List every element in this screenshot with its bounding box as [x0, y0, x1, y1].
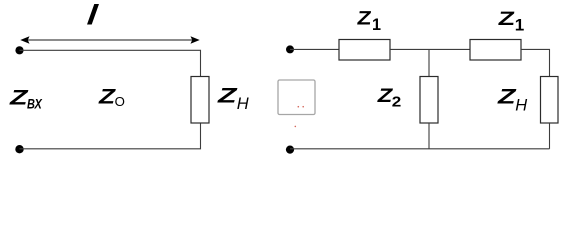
series impedance Z1 box (first): [339, 40, 390, 61]
svg-text:1: 1: [515, 17, 525, 35]
shunt impedance Z2 box: [420, 77, 438, 124]
svg-text:Z: Z: [497, 86, 517, 109]
wire: input to first Z1: [290, 48, 339, 50]
wire: between Z1 and Z1: [390, 48, 470, 50]
placeholder red dot 3: [295, 126, 297, 128]
svg-text:ВХ: ВХ: [27, 96, 43, 112]
terminal node top-left: [15, 46, 23, 54]
terminal node bottom-left: [15, 145, 23, 153]
wire: top conductor of line: [20, 50, 201, 76]
dimension arrow for length l: [20, 36, 199, 43]
label Z_1 (second): [497, 8, 516, 30]
wire: bottom conductor of line: [20, 123, 201, 149]
wire: second Z1 to ZH: [521, 49, 550, 76]
svg-text:Z: Z: [217, 85, 239, 108]
placeholder red dot 1: [298, 106, 300, 108]
wire: junction down to Z2: [428, 49, 430, 76]
wire: ZH to bottom rail: [549, 123, 551, 149]
svg-text:О: О: [115, 94, 125, 109]
svg-text:Z: Z: [497, 8, 516, 30]
load impedance ZH box (left circuit): [191, 77, 209, 124]
placeholder red dot 2: [302, 106, 304, 108]
svg-text:Z: Z: [356, 8, 373, 30]
ghost image placeholder box: [278, 80, 315, 115]
wire: bottom rail (right circuit): [290, 148, 550, 150]
wire: Z2 to bottom rail: [428, 123, 430, 149]
load impedance ZH box (right circuit): [541, 77, 559, 124]
svg-text:H: H: [237, 95, 249, 113]
label l (line length): [86, 0, 100, 30]
svg-text:H: H: [515, 97, 527, 115]
svg-text:2: 2: [392, 94, 402, 111]
terminal node top-left (right circuit): [286, 45, 294, 53]
svg-text:1: 1: [372, 15, 381, 34]
svg-text:Z: Z: [9, 86, 29, 110]
series impedance Z1 box (second): [470, 40, 521, 61]
terminal node bottom-left (right circuit): [286, 146, 294, 154]
label Z_1 (first): [356, 8, 373, 30]
